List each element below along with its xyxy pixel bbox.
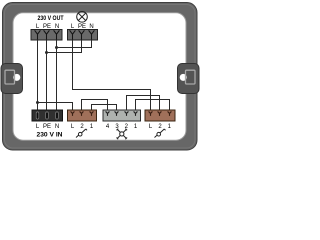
enclosure left mounting tab xyxy=(1,64,23,94)
wire PE rail (IN PE to OUT PE) xyxy=(46,40,48,110)
wire PE branch to lamp PE xyxy=(47,40,82,53)
wire cross pin2 to switch2 pin2 xyxy=(127,96,160,111)
wire N rail (IN N to OUT N) xyxy=(56,40,58,110)
enclosure right mounting tab xyxy=(178,64,200,94)
connector lamp out (top right socket block) xyxy=(68,30,98,41)
wire switch1 pin1 to cross pin3 xyxy=(92,105,117,111)
wire lamp L to switch 2 L xyxy=(73,40,151,110)
connector cross switch (grey plug block) xyxy=(103,110,141,121)
enclosure outer shell xyxy=(3,3,198,151)
symbol two-way switch 1 xyxy=(76,129,87,138)
svg-text:230 V OUT: 230 V OUT xyxy=(38,15,64,22)
wire switch1 pin2 to cross pin4 xyxy=(82,100,108,111)
node L branch junction xyxy=(36,101,39,104)
symbol intermediate (cross) switch xyxy=(117,129,128,140)
enclosure interior xyxy=(13,13,186,140)
symbol two-way switch 2 xyxy=(155,129,166,138)
wire L branch to switch 1 L xyxy=(38,103,73,111)
wire N branch to lamp N xyxy=(57,40,92,48)
wire cross pin1 to switch2 pin1 xyxy=(136,100,170,111)
svg-text:230 V IN: 230 V IN xyxy=(37,131,64,138)
node PE branch junction xyxy=(45,51,48,54)
connector switch 2 (brown plug block) xyxy=(145,110,175,121)
wire L rail (IN L to OUT L) xyxy=(37,40,39,110)
connector switch 1 (brown plug block) xyxy=(68,110,97,121)
connector 230 V OUT (top left socket block) xyxy=(31,30,62,41)
lamp symbol xyxy=(77,11,88,22)
node N branch junction xyxy=(55,46,58,49)
svg-text:N: N xyxy=(55,124,59,130)
connector 230 V IN (bottom black plug block) xyxy=(32,110,63,121)
svg-text:PE: PE xyxy=(43,124,51,130)
